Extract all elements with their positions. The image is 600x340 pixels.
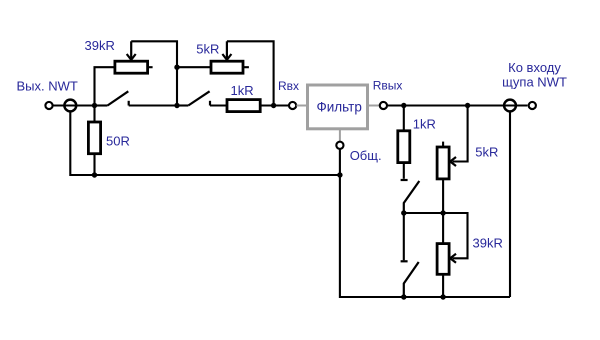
- potentiometer 39kR (left): [115, 41, 153, 73]
- switch S1 blade: [108, 91, 129, 105]
- wire right coax circle down to ground rail: [509, 111, 511, 297]
- potentiometer 5kR (left): [211, 41, 249, 73]
- wire S1 contact to node B: [129, 104, 177, 106]
- node D junction dot: [401, 103, 406, 108]
- switch S4 top lead: [403, 213, 405, 260]
- right stub of 5kR: [243, 66, 249, 68]
- switch S2 fixed contact: [209, 101, 211, 106]
- switch S4 fixed contact foot: [401, 260, 408, 262]
- junction dot 50R bottom: [92, 172, 97, 177]
- svg-text:39kR: 39kR: [473, 236, 503, 251]
- svg-text:Фильтр: Фильтр: [317, 100, 362, 115]
- svg-text:5kR: 5kR: [196, 42, 219, 57]
- wire node B level to 5kR left lead: [177, 66, 211, 68]
- junction dot middle wire at pots column: [440, 210, 445, 215]
- svg-text:39kR: 39kR: [85, 38, 115, 53]
- node B junction dot: [174, 103, 179, 108]
- wire S2 to 1kR: [210, 104, 227, 106]
- right stub of 39kR: [148, 66, 153, 68]
- potentiometer 39kR (right): [437, 213, 456, 297]
- switch S1 fixed contact: [128, 101, 130, 106]
- wire node D to right coax, passing through circle to small terminal: [404, 104, 528, 106]
- node A junction dot: [92, 103, 97, 108]
- terminal Rвых: [380, 102, 387, 109]
- svg-text:щупа NWT: щупа NWT: [502, 75, 567, 90]
- coax connector circle (right): [504, 100, 516, 112]
- middle wire node E to 39kR wiper: [404, 213, 468, 258]
- svg-text:1kR: 1kR: [231, 83, 254, 98]
- potentiometer 5kR (right): [437, 106, 468, 214]
- switch S3 fixed contact foot: [401, 179, 408, 181]
- wire node A up to 39kR left lead: [95, 67, 115, 105]
- wiper arrow of 5kR: [226, 41, 228, 59]
- junction dot S4 on ground rail: [401, 294, 406, 299]
- resistor 1kR (right): [398, 106, 410, 179]
- svg-text:Rвых: Rвых: [373, 79, 403, 93]
- wire from input terminal through coax circle to node A: [53, 104, 94, 106]
- svg-text:Ко входу: Ко входу: [508, 60, 561, 75]
- wire node B to S2: [177, 104, 188, 106]
- filter box U1: [308, 85, 368, 129]
- wiper arrowhead of 39kR right: [450, 254, 456, 263]
- switch S3 blade: [404, 181, 420, 213]
- junction dot 39kR bottom on ground rail: [440, 294, 445, 299]
- gray lead filter box bottom: [339, 129, 341, 142]
- resistor 50R: [88, 106, 100, 176]
- wiper of 5kR right: [453, 106, 468, 162]
- wire 1kR to Rвх terminal: [260, 104, 289, 106]
- terminal small circle (left input): [45, 102, 52, 109]
- svg-text:50R: 50R: [106, 133, 130, 148]
- coax connector circle (left): [64, 100, 76, 112]
- junction dot node D2 on top wire: [465, 103, 470, 108]
- terminal Rвх: [289, 102, 296, 109]
- switch S2 blade: [188, 91, 209, 105]
- wiper arrow of 39kR: [130, 41, 132, 59]
- wire node A to S1: [95, 104, 108, 106]
- junction dot bottom-left rail meets Общ wire: [337, 172, 342, 177]
- wire 39kR wiper over the top down to node B: [131, 41, 177, 105]
- svg-text:Общ.: Общ.: [350, 148, 382, 163]
- svg-text:1kR: 1kR: [413, 116, 436, 131]
- node C junction dot: [271, 103, 276, 108]
- svg-text:5kR: 5kR: [475, 145, 498, 160]
- wire Rвых to node D: [387, 104, 404, 106]
- node E junction dot: [401, 210, 406, 215]
- terminal small circle (right output): [529, 102, 536, 109]
- gray lead filter box to Rвых: [368, 105, 380, 107]
- wire 5kR wiper over the top down to node C: [227, 41, 274, 105]
- gray lead Rвх to filter box: [296, 105, 307, 107]
- terminal Общ: [336, 142, 343, 149]
- wire from left coax circle down to bottom-left rail: [70, 111, 340, 175]
- svg-text:Вых. NWT: Вых. NWT: [17, 79, 78, 94]
- resistor 1kR (left): [227, 100, 260, 112]
- svg-text:Rвх: Rвх: [278, 79, 299, 93]
- switch S4 blade: [404, 262, 419, 297]
- wire Общ terminal down to ground rail: [340, 149, 510, 297]
- junction dot at 39kR/5kR lead level: [174, 65, 179, 70]
